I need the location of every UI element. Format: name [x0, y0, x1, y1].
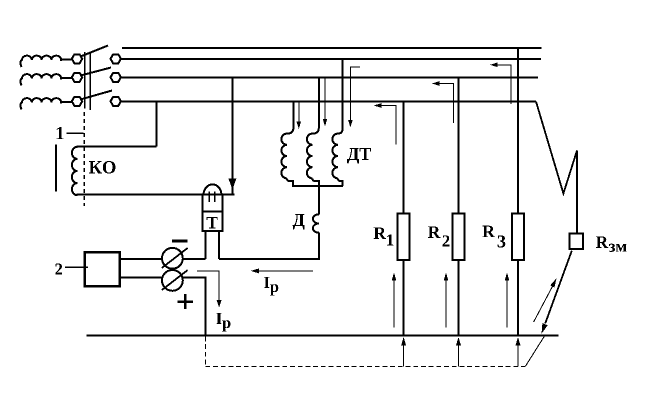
- label 2 leader: [65, 266, 88, 268]
- DT coil 3: [332, 134, 338, 179]
- current arrow line into DT3: [350, 67, 360, 121]
- return arrow line under R2: [458, 345, 460, 367]
- transformer winding W3: [20, 98, 72, 109]
- D coil feed: [318, 186, 320, 214]
- wire box to meter 2: [120, 276, 164, 278]
- bus line C (phase B): [119, 77, 538, 79]
- wire meter 2 to ground: [182, 277, 205, 335]
- label 2: [55, 263, 62, 274]
- switch blade pole 3: [78, 91, 112, 101]
- DT coil 3 feed from bus B: [338, 60, 343, 134]
- switch blade pole 2: [78, 68, 111, 77]
- fault current arrow line: [534, 284, 554, 323]
- coil KO riser to bus D: [156, 102, 158, 147]
- switch contact right 3: [111, 97, 121, 106]
- indicator box 2: [85, 252, 120, 286]
- switch blade pole 1: [78, 46, 108, 58]
- wire meter 1 to arrester left leg: [183, 258, 206, 260]
- DT coil 2 bottom exit: [313, 178, 319, 186]
- return arrow line under R3: [517, 345, 519, 367]
- DT common bar: [292, 185, 343, 187]
- dashed return path horizontal: [205, 366, 525, 368]
- arrow head Ip left: [217, 300, 222, 308]
- arrow into DT coil 1: [297, 122, 302, 130]
- DT coil 1: [281, 134, 287, 179]
- current arrow line Ip left: [197, 271, 219, 301]
- DT coil 1 bottom exit: [287, 178, 293, 186]
- resistor R3: [512, 214, 524, 261]
- label 1 leader: [67, 132, 84, 134]
- arrow head Rzm ground: [542, 323, 548, 334]
- resistor R2 ground wire: [458, 260, 460, 336]
- current arrow line R3 bent: [497, 65, 512, 104]
- switch gang bar: [84, 52, 86, 109]
- DT coil 3 bottom exit: [338, 178, 343, 186]
- resistor R1 ground wire: [403, 260, 405, 336]
- current arrow line R1 bent: [380, 106, 396, 145]
- label Rzm: [596, 236, 627, 251]
- arrow head up beside R1: [392, 273, 397, 281]
- core bar: [55, 145, 57, 192]
- bus line B (phase A): [119, 58, 541, 60]
- arrester T body: [203, 195, 223, 231]
- label KO: [89, 161, 116, 173]
- switch contact right 1: [111, 54, 121, 63]
- arrow head up beside R2: [444, 273, 449, 281]
- arrester T right leg: [218, 231, 220, 259]
- fault zigzag from bus D: [536, 102, 577, 234]
- current arrow line Ip right: [257, 270, 313, 272]
- D coil: [313, 214, 319, 232]
- DT coil 1 feed from bus D: [287, 103, 293, 134]
- dashed return path vertical: [204, 337, 206, 367]
- arrow into arrester: [228, 179, 236, 190]
- arrow head fault current: [550, 278, 556, 287]
- resistor R2: [453, 214, 465, 261]
- switch contact left 3: [72, 97, 82, 106]
- label R1: [374, 227, 394, 245]
- label T: [207, 217, 218, 228]
- minus sign: [172, 240, 187, 243]
- arrow into DT coil 3: [348, 120, 353, 128]
- arrester T electrodes: [208, 192, 210, 203]
- arrow head under ground R1: [401, 337, 406, 346]
- wire KO bottom to arrester: [77, 194, 235, 196]
- arrow head Ip right: [251, 268, 259, 273]
- current arrow line beside R2: [445, 280, 447, 328]
- transformer winding W1: [20, 56, 72, 67]
- DT coil 2 feed from bus C: [313, 79, 319, 134]
- arrow head up beside R3: [505, 273, 510, 281]
- current arrow line into DT2: [324, 79, 326, 120]
- arrester T dome: [204, 184, 222, 194]
- label DT: [347, 148, 371, 164]
- meter 1: [162, 248, 183, 269]
- current arrow line beside R3: [506, 280, 508, 328]
- coil KO: [72, 147, 77, 195]
- arrow head R2 bent: [432, 81, 440, 86]
- label 1: [57, 127, 64, 139]
- resistor R1 feed: [403, 103, 405, 214]
- current arrow line R2 bent: [438, 84, 453, 123]
- return path diagonal: [525, 336, 544, 367]
- arrester T divider: [203, 211, 223, 213]
- current arrow line into DT1: [298, 103, 300, 123]
- arrow head under ground R2: [456, 337, 461, 346]
- switch contact left 2: [72, 73, 82, 82]
- switch contact left 1: [72, 54, 82, 63]
- resistor Rzm: [570, 233, 584, 249]
- wire KO top: [77, 146, 157, 148]
- return arrow line under R1: [403, 345, 405, 367]
- label Ip right: [264, 277, 278, 296]
- resistor R3 ground wire: [517, 260, 519, 336]
- resistor R2 feed: [458, 79, 460, 214]
- arrow head R1 bent: [374, 103, 382, 108]
- switch contact right 2: [111, 73, 121, 82]
- resistor R3 feed: [517, 48, 519, 214]
- DT coil 2: [307, 134, 313, 179]
- transformer winding W2: [20, 74, 72, 85]
- meter 2: [162, 270, 183, 291]
- arrow into DT coil 2: [323, 119, 328, 127]
- plus sign: [178, 300, 193, 303]
- label R3: [483, 226, 506, 248]
- label Ip left: [216, 313, 230, 332]
- wire from bus C to arrester: [231, 79, 233, 195]
- arrow head R3 bent: [490, 63, 498, 68]
- label R2: [428, 226, 450, 246]
- resistor R1: [398, 214, 410, 261]
- dashed cell boundary: [83, 112, 85, 206]
- current arrow line beside R1: [393, 280, 395, 328]
- bus line D (phase C): [119, 101, 536, 103]
- wire box to meter 1: [120, 258, 163, 260]
- label D: [293, 214, 305, 230]
- wire D coil to arrester right leg: [219, 233, 319, 259]
- Rzm ground wire with arrow: [545, 251, 572, 324]
- arrow head under ground R3: [516, 337, 521, 346]
- ground line: [86, 334, 558, 336]
- bus line A (top): [122, 47, 542, 49]
- arrester T left leg: [205, 231, 207, 259]
